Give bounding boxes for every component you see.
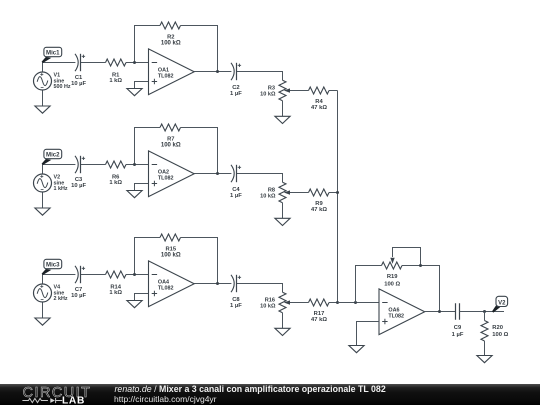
capacitor C4 — [230, 165, 242, 199]
wire C8 to pot R16 top — [237, 284, 283, 293]
svg-text:10 µF: 10 µF — [71, 81, 86, 87]
microphone label Mic3 — [42, 259, 62, 275]
svg-text:R9: R9 — [315, 201, 323, 207]
wire bus to OA6 inverting input — [338, 302, 380, 304]
svg-text:47 kΩ: 47 kΩ — [311, 317, 327, 323]
svg-text:1 µF: 1 µF — [230, 193, 242, 199]
capacitor C8 — [230, 275, 242, 309]
capacitor C9 1 µF — [452, 303, 464, 338]
wire pot R16 bottom to ground — [282, 313, 284, 329]
wire wiper of R8 to R9 — [290, 192, 309, 194]
wire feedback left vertical to R19 — [356, 266, 382, 303]
resistor R4 47 kΩ — [309, 87, 330, 111]
ground at OA1 non-inverting input — [127, 89, 142, 96]
capacitor C1 — [71, 54, 86, 87]
resistor R15 100 kΩ feedback — [160, 234, 181, 259]
wire R17 to summing bus — [329, 302, 338, 304]
op-amp OA6 TL082 summing — [379, 289, 425, 335]
svg-text:R4: R4 — [315, 99, 323, 105]
svg-text:C1: C1 — [75, 75, 83, 81]
svg-text:C7: C7 — [75, 287, 82, 293]
wire C3 to R6 — [81, 164, 106, 166]
wire source top stub — [42, 275, 44, 285]
wire feedback right vertical — [181, 128, 218, 174]
svg-text:R3: R3 — [268, 85, 275, 91]
svg-text:1 µF: 1 µF — [452, 332, 464, 338]
capacitor C2 — [230, 63, 242, 97]
wire feedback left vertical — [135, 26, 161, 63]
node bus channel 2 junction — [336, 191, 339, 194]
resistor R7 100 kΩ feedback — [160, 124, 181, 149]
wire R1 to OA1 inverting input — [126, 62, 149, 64]
svg-text:10 kΩ: 10 kΩ — [260, 304, 276, 310]
wire OA6 output to C9 — [425, 311, 456, 313]
ground below pot R16 — [275, 328, 290, 335]
resistor R1 1 kΩ — [106, 59, 127, 84]
node feedback tap at OA6 input — [354, 301, 357, 304]
svg-text:10 kΩ: 10 kΩ — [260, 92, 276, 98]
svg-text:1 kΩ: 1 kΩ — [109, 78, 122, 84]
resistor R14 1 kΩ — [106, 271, 127, 296]
svg-text:C9: C9 — [454, 325, 462, 331]
svg-text:47 kΩ: 47 kΩ — [311, 207, 327, 213]
node OA1 output junction — [216, 70, 219, 73]
wire C7 to R14 — [81, 274, 106, 276]
wire OA2 non-inverting input to ground — [135, 184, 149, 191]
svg-text:10 µF: 10 µF — [71, 293, 86, 299]
footer bar — [0, 384, 540, 405]
capacitor C7 — [71, 266, 86, 299]
potentiometer R3 10 kΩ — [260, 80, 290, 101]
wire source bottom to ground — [42, 302, 44, 318]
microphone label Mic2 — [42, 149, 62, 165]
svg-text:1 µF: 1 µF — [230, 91, 242, 97]
svg-text:C4: C4 — [232, 187, 240, 193]
svg-text:100 kΩ: 100 kΩ — [161, 143, 181, 149]
wire source top stub — [42, 165, 44, 175]
svg-text:R19: R19 — [387, 274, 398, 280]
voltage source V1 — [34, 72, 71, 90]
svg-text:1 kΩ: 1 kΩ — [109, 290, 122, 296]
wire R19 wiper loop — [393, 248, 421, 266]
node OA6 output junction — [438, 310, 441, 313]
svg-text:10 kΩ: 10 kΩ — [260, 194, 276, 200]
svg-text:1 µF: 1 µF — [230, 303, 242, 309]
wire OA6 non-inverting input to ground — [357, 322, 380, 346]
potentiometer R19 100 Ω feedback — [382, 258, 403, 288]
svg-text:TL082: TL082 — [158, 175, 174, 181]
wire wiper of R16 to R17 — [290, 302, 309, 304]
capacitor C3 — [71, 156, 86, 189]
resistor R2 100 kΩ feedback — [160, 22, 181, 47]
wire wiper of R3 to R4 — [290, 90, 309, 92]
wire C2 to pot R3 top — [237, 72, 283, 81]
node output V2 — [483, 310, 486, 313]
wire input node to C1 — [43, 62, 76, 64]
wire summing bus vertical — [337, 91, 339, 303]
op-amp OA2 TL082 — [149, 151, 195, 197]
svg-text:47 kΩ: 47 kΩ — [311, 105, 327, 111]
resistor R17 47 kΩ — [309, 299, 330, 323]
svg-text:500 Hz: 500 Hz — [54, 84, 71, 90]
svg-text:C8: C8 — [232, 297, 240, 303]
wire OA2 output to C4 — [194, 173, 231, 175]
node bus channel 3 junction — [336, 301, 339, 304]
svg-text:100 kΩ: 100 kΩ — [161, 253, 181, 259]
node feedback tap — [133, 163, 136, 166]
footer credit text — [115, 384, 386, 394]
ground at OA4 non-inverting input — [127, 301, 142, 308]
svg-text:TL082: TL082 — [158, 285, 174, 291]
svg-text:Mic2: Mic2 — [46, 152, 60, 159]
node R19 wiper junction — [419, 264, 422, 267]
svg-text:C3: C3 — [75, 177, 83, 183]
wire R14 to OA4 inverting input — [126, 274, 149, 276]
potentiometer R16 10 kΩ — [260, 292, 290, 313]
voltage source V2 — [34, 174, 68, 192]
op-amp OA1 TL082 — [149, 49, 195, 95]
ground below V1 — [35, 106, 50, 113]
svg-text:10 µF: 10 µF — [71, 183, 86, 189]
svg-text:R8: R8 — [268, 187, 275, 193]
svg-text:R20: R20 — [492, 325, 503, 331]
voltage source V4 — [34, 284, 68, 302]
wire pot R8 bottom to ground — [282, 203, 284, 219]
wire R6 to OA2 inverting input — [126, 164, 149, 166]
svg-text:100 kΩ: 100 kΩ — [161, 41, 181, 47]
node OA4 output junction — [216, 282, 219, 285]
wire source bottom to ground — [42, 192, 44, 208]
wire C9 to output node — [460, 311, 505, 313]
wire R19 right to output — [402, 266, 440, 312]
wire OA4 non-inverting input to ground — [135, 294, 149, 301]
potentiometer R8 10 kΩ — [260, 182, 290, 202]
wire source bottom to ground — [42, 90, 44, 106]
microphone label Mic1 — [42, 47, 62, 63]
node feedback tap — [133, 61, 136, 64]
svg-text:R16: R16 — [265, 297, 275, 303]
wire source top stub — [42, 63, 44, 73]
wire pot R3 bottom to ground — [282, 101, 284, 117]
CircuitLab logo — [0, 384, 110, 405]
node OA2 output junction — [216, 172, 219, 175]
wire OA1 output to C2 — [194, 71, 231, 73]
ground below V2 — [35, 208, 50, 215]
ground below R20 — [477, 356, 492, 363]
svg-text:1 kHz: 1 kHz — [54, 186, 68, 192]
svg-text:LAB: LAB — [62, 395, 85, 405]
svg-text:100 Ω: 100 Ω — [384, 282, 400, 288]
wire OA4 output to C8 — [194, 283, 231, 285]
svg-text:100 Ω: 100 Ω — [492, 332, 508, 338]
wire OA1 non-inverting input to ground — [135, 82, 149, 89]
resistor R6 1 kΩ — [106, 161, 127, 186]
op-amp OA4 TL082 — [149, 261, 195, 307]
wire input node to C7 — [43, 274, 76, 276]
svg-text:1 kΩ: 1 kΩ — [109, 180, 122, 186]
resistor R20 100 Ω load — [481, 312, 509, 356]
svg-text:TL082: TL082 — [158, 73, 174, 79]
svg-text:2 kHz: 2 kHz — [54, 296, 68, 302]
wire C1 to R1 — [81, 62, 106, 64]
svg-text:V2: V2 — [498, 300, 506, 306]
resistor R9 47 kΩ — [309, 189, 330, 213]
svg-text:TL082: TL082 — [388, 313, 404, 319]
wire feedback left vertical — [135, 238, 161, 275]
wire feedback right vertical — [181, 238, 218, 284]
wire R4 to summing bus — [329, 90, 338, 92]
svg-text:Mic1: Mic1 — [46, 50, 60, 57]
node feedback tap — [133, 273, 136, 276]
output label V2 flag — [492, 296, 508, 312]
wire feedback left vertical — [135, 128, 161, 165]
ground at OA6 non-inverting input — [349, 346, 364, 353]
ground below V4 — [35, 318, 50, 325]
ground below pot R8 — [275, 218, 290, 225]
wire input node to C3 — [43, 164, 76, 166]
svg-text:C2: C2 — [232, 85, 239, 91]
svg-text:Mic3: Mic3 — [46, 262, 60, 269]
wire C4 to pot R8 top — [237, 174, 283, 183]
ground below pot R3 — [275, 116, 290, 123]
wire feedback right vertical — [181, 26, 218, 72]
wire R9 to summing bus — [329, 192, 338, 194]
svg-text:R17: R17 — [314, 311, 325, 317]
ground at OA2 non-inverting input — [127, 191, 142, 198]
